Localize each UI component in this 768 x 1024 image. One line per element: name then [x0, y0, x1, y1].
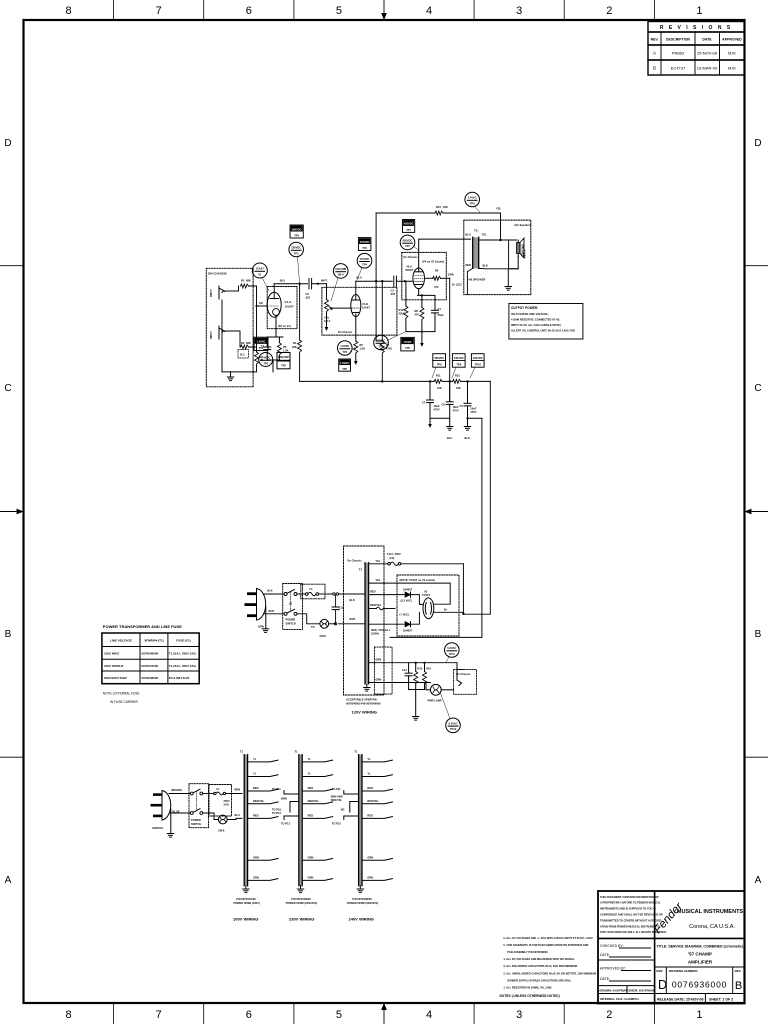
zone tick 8/7 bottom [113, 1003, 115, 1024]
svg-text:C2: C2 [306, 292, 310, 296]
hum balance resistor R14 [415, 663, 417, 672]
center arrow top [382, 0, 386, 19]
plug ground wire 100V [170, 809, 172, 833]
svg-text:A PROPRIETARY NATURE TO FENDER: A PROPRIETARY NATURE TO FENDER MUSICAL [600, 901, 661, 905]
svg-text:APPROVED: APPROVED [722, 38, 742, 42]
zone tick 3/2 bottom [563, 1003, 565, 1024]
svg-text:ENGR: KAUFMAN: ENGR: KAUFMAN [629, 989, 655, 993]
svg-text:0076936000: 0076936000 [672, 980, 727, 990]
svg-text:B+ (SC): B+ (SC) [452, 283, 462, 287]
balloon TP7 [400, 235, 415, 250]
svg-text:(POWER SUPPLY BYPASS CAPACITOR: (POWER SUPPLY BYPASS CAPACITORS ARE 20%)… [507, 979, 571, 983]
svg-text:25-NOV-08: 25-NOV-08 [697, 51, 718, 56]
svg-text:T2: T2 [474, 229, 478, 233]
svg-text:On Chassis: On Chassis [403, 255, 418, 259]
svg-text:RED/YEL: RED/YEL [308, 799, 320, 803]
svg-text:120V 60HZ: 120V 60HZ [104, 652, 119, 656]
svg-text:DRAWING NUMBER: DRAWING NUMBER [669, 969, 698, 973]
fuse dashed box 100V [209, 785, 232, 817]
svg-text:RED/YEL: RED/YEL [370, 603, 382, 607]
svg-text:C5: C5 [460, 404, 464, 408]
zone tick 3/2 top [563, 0, 565, 20]
svg-text:OUTPUT POWER:: OUTPUT POWER: [511, 306, 538, 310]
svg-text:Corona, CA U.S.A.: Corona, CA U.S.A. [689, 924, 735, 930]
speaker LS1 [517, 243, 521, 254]
filter cap C7 branch [429, 381, 431, 399]
fuse F1 [297, 593, 306, 595]
svg-text:7: 7 [156, 5, 162, 17]
revisions table frame [648, 22, 745, 33]
svg-text:1: 1 [696, 1009, 702, 1021]
pilot lamp XP1 [430, 684, 441, 695]
svg-text:R6: R6 [360, 343, 364, 347]
svg-text:1N4007: 1N4007 [403, 588, 413, 592]
svg-text:YL: YL [253, 772, 257, 776]
svg-text:MUSICAL INSTRUMENTS: MUSICAL INSTRUMENTS [677, 909, 744, 915]
svg-text:3AG: 3AG [224, 803, 229, 807]
balloon 12AX7 callout [252, 263, 267, 278]
volume pot VR1 1M [325, 300, 329, 312]
svg-text:FUSE (F1): FUSE (F1) [176, 639, 190, 643]
hum balance resistor R15 [424, 663, 426, 672]
svg-text:TP4: TP4 [362, 246, 367, 250]
svg-text:10K: 10K [437, 386, 442, 390]
svg-text:NC: NC [341, 808, 345, 812]
screen wire and resistor R9 [424, 277, 433, 279]
N.C. dashed box [238, 350, 249, 359]
screen supply vertical [449, 278, 451, 401]
T2 primary bottom lead down [467, 268, 472, 294]
svg-text:DRAWN: KAUFMAN: DRAWN: KAUFMAN [600, 989, 628, 993]
zone tick D/C right [745, 265, 768, 267]
svg-text:LINE VOLTAGE: LINE VOLTAGE [110, 639, 132, 643]
label box TP5 black [339, 359, 351, 371]
svg-text:NOTE: EXTERNAL FUSE: NOTE: EXTERNAL FUSE [103, 692, 140, 696]
resistor R1 68K [241, 284, 249, 288]
resistor R3 1M grid leak [256, 347, 258, 352]
svg-text:ACCEPTABLE XFMR P/N: ACCEPTABLE XFMR P/N [346, 698, 377, 702]
svg-text:100V WIRING: 100V WIRING [233, 917, 258, 922]
power switch dashed box [283, 584, 303, 630]
svg-text:DATE:: DATE: [600, 977, 610, 981]
cap C4 cathode bypass [432, 310, 439, 313]
grid leak vertical R7 path [376, 281, 382, 341]
V2 plate wire to OT [419, 239, 471, 272]
T1 tap RED bottom [369, 623, 404, 625]
svg-text:BRN AND: BRN AND [331, 795, 343, 799]
resistor R8 cathode 470 [420, 307, 424, 319]
speaker ground [505, 287, 511, 291]
pentode V2 6V6GT [413, 268, 425, 289]
svg-text:B+: B+ [444, 608, 448, 612]
svg-text:TP7: TP7 [406, 228, 411, 232]
svg-text:GRN: GRN [253, 855, 259, 859]
svg-text:TO P11: TO P11 [332, 787, 341, 791]
balloon volume callout [333, 264, 348, 279]
svg-text:360VDC: 360VDC [434, 356, 444, 360]
svg-text:475V: 475V [434, 408, 440, 412]
svg-text:0076048000: 0076048000 [142, 676, 159, 680]
svg-text:12AX7: 12AX7 [256, 267, 264, 271]
svg-text:6.3VAC: 6.3VAC [449, 721, 458, 725]
input jack J2 [219, 326, 225, 339]
connector terminals hot [333, 593, 335, 595]
fuse F1 100V [203, 793, 214, 795]
resistor R7 [380, 341, 384, 353]
svg-text:(On Speaker): (On Speaker) [515, 223, 531, 227]
svg-text:R9: R9 [435, 269, 439, 273]
svg-text:1.5K: 1.5K [283, 349, 289, 353]
xfmr C jumpers [344, 791, 359, 820]
svg-text:R12: R12 [455, 374, 460, 378]
node down to supply vertical [299, 284, 301, 340]
switch S1 pole 2 [284, 612, 287, 615]
svg-text:B: B [653, 66, 656, 71]
zone tick D/C left [0, 265, 24, 267]
svg-text:8: 8 [66, 1009, 72, 1021]
svg-text:C14: C14 [402, 668, 407, 672]
B+ bus horizontal [300, 380, 491, 382]
title block frame [598, 891, 745, 1004]
svg-text:4. ALL DC VOLTAGES ARE MEASURE: 4. ALL DC VOLTAGES ARE MEASURED WITH NO … [503, 957, 575, 961]
svg-text:T1.25A L 250V 3AG: T1.25A L 250V 3AG [169, 652, 197, 656]
AC plug P1 100V [162, 791, 171, 821]
top rail corner to speaker line [500, 213, 502, 240]
svg-text:N.C.: N.C. [240, 353, 245, 357]
label box TP4 black [358, 238, 371, 251]
left center arrow [0, 509, 23, 513]
svg-text:C13: C13 [339, 606, 344, 610]
svg-text:1.4VDC: 1.4VDC [256, 340, 265, 344]
zone tick B/A right [745, 756, 768, 758]
svg-text:On Chassis: On Chassis [347, 559, 362, 563]
T1 tap RED [369, 594, 404, 596]
svg-text:RED: RED [253, 786, 259, 790]
svg-text:TP7: TP7 [405, 244, 410, 248]
svg-text:SHEET: 1 OF 2: SHEET: 1 OF 2 [709, 998, 733, 1002]
svg-text:R15: R15 [426, 667, 431, 671]
input jack J1 [219, 286, 225, 299]
svg-text:17VDC: 17VDC [377, 339, 385, 343]
svg-text:RED: RED [367, 786, 373, 790]
svg-text:5: 5 [336, 1009, 342, 1021]
svg-text:BROWN: BROWN [172, 788, 182, 792]
svg-text:420VDC: 420VDC [404, 222, 414, 226]
svg-text:4 OHM RESISTIVE, CONNECTED AT: 4 OHM RESISTIVE, CONNECTED AT 4Ω [511, 318, 559, 322]
svg-text:TP6: TP6 [405, 346, 410, 350]
zone tick 6/5 top [293, 0, 295, 20]
diode D2 [405, 622, 411, 627]
wire R1 to grid node [249, 285, 257, 287]
T1 HV secondary YEL 2 [369, 583, 451, 604]
svg-text:1N4007: 1N4007 [403, 629, 413, 633]
svg-text:WHT: WHT [349, 617, 355, 621]
svg-text:TO P11: TO P11 [272, 787, 281, 791]
svg-text:INPUT: INPUT [209, 331, 213, 339]
balloon TP4 [357, 253, 372, 268]
svg-text:22K: 22K [443, 205, 448, 209]
svg-text:RED: RED [308, 813, 314, 817]
hot neutral wires 100V [169, 793, 190, 795]
svg-text:C6: C6 [442, 403, 446, 407]
diode wires to tube [411, 595, 424, 625]
svg-text:1.4VDC: 1.4VDC [261, 356, 270, 360]
svg-text:0076047000: 0076047000 [142, 664, 159, 668]
svg-text:INSTRUMENTS AND IS SUPPLIED TO: INSTRUMENTS AND IS SUPPLIED TO YOU IN [600, 907, 656, 911]
svg-text:0076046000 P/N 0076049000: 0076046000 P/N 0076049000 [346, 702, 381, 706]
svg-text:6. ALL AC VOLTAGES ARE +/- 20%: 6. ALL AC VOLTAGES ARE +/- 20% WITH 120V… [503, 936, 593, 940]
xfmr A taps right [248, 760, 278, 880]
zone tick 4/3 top [473, 0, 475, 20]
svg-text:EC4737: EC4737 [671, 66, 686, 71]
svg-text:T1: T1 [295, 750, 299, 754]
svg-text:RELEASE DATE: 25-NOV-08: RELEASE DATE: 25-NOV-08 [657, 998, 703, 1002]
svg-text:PA 0.5M4 5x20: PA 0.5M4 5x20 [169, 676, 190, 680]
svg-text:S1: S1 [289, 602, 293, 606]
svg-text:CM-8: CM-8 [320, 634, 327, 638]
svg-text:(F2): (F2) [390, 556, 395, 560]
switch S1 100V [190, 792, 193, 795]
svg-text:BLU: BLU [280, 279, 285, 283]
svg-text:SWITCH: SWITCH [191, 822, 201, 826]
svg-text:5Y3GT: 5Y3GT [422, 593, 431, 597]
svg-text:1M: 1M [259, 301, 263, 305]
svg-text:1M-A: 1M-A [338, 273, 344, 277]
tp label box TP10 [471, 354, 484, 368]
svg-text:.022: .022 [305, 296, 311, 300]
svg-text:8: 8 [66, 5, 72, 17]
svg-text:345VDC: 345VDC [454, 356, 464, 360]
svg-text:6: 6 [246, 5, 252, 17]
svg-text:BLU: BLU [466, 233, 471, 237]
svg-text:(P# on V2 Socket): (P# on V2 Socket) [422, 260, 444, 264]
svg-text:RED/YEL: RED/YEL [331, 798, 343, 802]
triode V1-B [351, 295, 361, 317]
svg-text:R2: R2 [241, 341, 245, 345]
svg-text:YL: YL [367, 772, 371, 776]
line cap C13 [335, 595, 337, 607]
svg-text:BLU: BLU [235, 813, 240, 817]
svg-text:470: 470 [434, 285, 439, 289]
zone tick 6/5 bottom [293, 1003, 295, 1024]
thermistor CM-8 100V [203, 813, 219, 820]
svg-text:TP5: TP5 [342, 367, 347, 371]
resistor R10 grid 220K [404, 306, 408, 318]
svg-text:P/N 0076047000: P/N 0076047000 [236, 897, 256, 901]
wire jack1 to R1 [225, 290, 239, 292]
svg-text:DESCRIPTION: DESCRIPTION [666, 38, 690, 42]
svg-text:REV.: REV. [735, 969, 742, 973]
wire jack2 to R2 [225, 331, 241, 347]
svg-text:RED: RED [370, 590, 376, 594]
right center arrow [746, 509, 768, 513]
node grid join [256, 286, 258, 347]
svg-text:RED: RED [466, 263, 472, 267]
svg-text:4.4VAC: 4.4VAC [468, 196, 477, 200]
V1B plate wire [355, 281, 357, 300]
svg-text:On Chassis: On Chassis [338, 330, 353, 334]
svg-text:INPUT: INPUT [209, 289, 213, 297]
xfmr A ground [245, 886, 247, 889]
svg-text:5. THIS SCHEMATIC IS FOR PCB F: 5. THIS SCHEMATIC IS FOR PCB FABRICATION… [503, 943, 588, 947]
svg-text:CONFIDENCE AND SHALL NOT BE RE: CONFIDENCE AND SHALL NOT BE REVEALED OR [600, 913, 663, 917]
svg-text:R14: R14 [418, 667, 423, 671]
svg-text:WHT: WHT [268, 609, 274, 613]
balloon TP9 top [465, 192, 480, 207]
svg-text:YEL: YEL [375, 559, 380, 563]
svg-text:VOLUME: VOLUME [335, 267, 346, 271]
xfmr A winding [244, 755, 247, 886]
svg-text:V1-B: V1-B [362, 302, 368, 306]
svg-text:REV.: REV. [651, 38, 659, 42]
svg-text:4: 4 [426, 1009, 432, 1021]
svg-text:C: C [4, 383, 11, 394]
svg-text:NOTES: (UNLESS OTHERWISE NOTE: NOTES: (UNLESS OTHERWISE NOTED) [500, 994, 560, 998]
svg-text:100V 50/60HZ: 100V 50/60HZ [104, 664, 124, 668]
svg-text:INTERNAL FILE: CHAMP04: INTERNAL FILE: CHAMP04 [600, 997, 639, 1001]
svg-text:GRN: GRN [367, 875, 373, 879]
pot bottom ground [326, 312, 328, 327]
svg-text:POWER XFMR (100V): POWER XFMR (100V) [233, 901, 260, 905]
power switch dashed box 100V [189, 784, 209, 828]
filter cap C5 branch [467, 381, 469, 402]
input ground bus wire [222, 300, 257, 372]
T1 center tap RED/YEL [369, 608, 377, 610]
svg-text:XFMR/P# (T1): XFMR/P# (T1) [144, 639, 163, 643]
svg-text:POWER TRANSFORMER AND LINE: POWER TRANSFORMER AND LINE FUSE [103, 624, 182, 629]
svg-text:240V WIRING: 240V WIRING [349, 917, 374, 922]
filter cap C6 branch [449, 381, 451, 401]
AC plug P1 [257, 589, 266, 621]
svg-text:120V WIRING: 120V WIRING [352, 710, 377, 715]
svg-text:(230V): (230V) [371, 632, 379, 636]
svg-text:RED: RED [308, 786, 314, 790]
svg-text:BLK: BLK [483, 263, 488, 267]
svg-text:On Chassis: On Chassis [456, 672, 471, 676]
svg-text:220K: 220K [399, 312, 405, 316]
plug ground wire [265, 607, 267, 628]
output power note box [509, 304, 583, 340]
svg-text:22K: 22K [292, 345, 297, 349]
svg-text:1.5K: 1.5K [360, 347, 366, 351]
long wire to PS right [390, 418, 482, 637]
T1 HV secondary YEL with fuse F2 [369, 563, 388, 565]
svg-text:TP11: TP11 [449, 652, 456, 656]
svg-text:V2-A: V2-A [406, 265, 412, 269]
zone tick 4/3 bottom [473, 1003, 475, 1024]
balloon TP3 [289, 242, 304, 257]
plate rail V1A [274, 283, 307, 285]
svg-text:16uF: 16uF [434, 404, 440, 408]
T1 heater tap GRN 2 [369, 682, 431, 684]
T1 heater tap GRN 1 [369, 662, 457, 664]
neutral wire to thermistor [297, 614, 320, 624]
svg-text:170VDC: 170VDC [360, 257, 370, 261]
svg-text:APPROVED BY:: APPROVED BY: [600, 967, 626, 971]
svg-text:CHECKED BY:: CHECKED BY: [600, 944, 624, 948]
svg-text:C3: C3 [391, 289, 395, 293]
svg-text:RED: RED [367, 813, 373, 817]
svg-text:TP2: TP2 [263, 361, 268, 365]
svg-text:Fender: Fender [652, 900, 686, 936]
svg-text:(+ VAC): (+ VAC) [400, 613, 409, 617]
svg-text:A: A [653, 51, 656, 56]
svg-text:PWR LAMP: PWR LAMP [428, 699, 442, 703]
svg-text:16uF: 16uF [453, 405, 459, 409]
svg-text:GRN: GRN [375, 678, 381, 682]
svg-text:180VDC: 180VDC [291, 246, 301, 250]
T2 secondary bottom lead [479, 240, 519, 286]
svg-text:TP2: TP2 [259, 346, 264, 350]
HV loop to rectifier plate [462, 564, 464, 614]
svg-text:RED, T200mA L: RED, T200mA L [371, 628, 391, 632]
wire into volume pot [326, 284, 328, 300]
svg-text:RED: RED [253, 813, 259, 817]
svg-text:R5: R5 [283, 345, 287, 349]
svg-text:A: A [5, 875, 12, 886]
label box TP3 black upper [290, 225, 303, 238]
svg-text:YEL: YEL [375, 578, 380, 582]
svg-text:230V WIRING: 230V WIRING [289, 917, 314, 922]
ground input [230, 372, 232, 377]
svg-text:POWER: POWER [286, 618, 296, 622]
svg-text:180VDC: 180VDC [292, 227, 302, 231]
series resistor R11 on bus [434, 379, 442, 383]
svg-text:C7: C7 [422, 401, 426, 405]
svg-text:6V6GT: 6V6GT [405, 268, 414, 272]
svg-text:BLK: BLK [349, 598, 354, 602]
svg-text:THIS DOCUMENT CONTAINS INFORMA: THIS DOCUMENT CONTAINS INFORMATION OF [600, 895, 659, 899]
svg-text:BRN: BRN [235, 788, 241, 792]
cathode cap C1 25uF [264, 347, 271, 350]
xfmr B jumpers [284, 791, 299, 820]
svg-text:R13: R13 [436, 205, 441, 209]
tp label box TP8 [433, 354, 446, 368]
cathode bottom joins [406, 313, 435, 332]
svg-text:475V: 475V [453, 409, 459, 413]
svg-text:C: C [754, 383, 761, 394]
V2 chassis dashed box [402, 252, 447, 299]
plate rail V1B to V2 grid [356, 280, 392, 282]
svg-text:GRN/YEL: GRN/YEL [152, 826, 164, 830]
balloon TP2 [259, 353, 273, 367]
svg-text:3. ALL POLARIZED CAPACITORS IN: 3. ALL POLARIZED CAPACITORS IN uF, 20% N… [503, 964, 578, 968]
svg-text:(5.3 VAC): (5.3 VAC) [401, 599, 412, 603]
svg-text:TRANSMITTED TO OTHERS WITHOUT: TRANSMITTED TO OTHERS WITHOUT AUTHORIZ- [600, 918, 662, 922]
svg-text:3: 3 [516, 5, 522, 17]
svg-text:68K: 68K [246, 341, 251, 345]
svg-text:TP3: TP3 [294, 251, 299, 255]
svg-text:325VDC: 325VDC [473, 356, 483, 360]
V1A plate wire [273, 284, 275, 299]
svg-text:GRN: GRN [253, 875, 259, 879]
svg-text:TP4: TP4 [362, 263, 367, 267]
triode V1-A [267, 292, 281, 317]
top B+ rail [376, 212, 500, 214]
label box TP2 black [254, 337, 268, 350]
svg-text:POWER XFMR (230/240V): POWER XFMR (230/240V) [347, 901, 379, 905]
center arrow bottom [382, 1004, 386, 1024]
svg-text:R8: R8 [415, 309, 419, 313]
svg-text:TP12: TP12 [450, 727, 457, 731]
svg-text:PCB ASSEMBLY P/N 0076039000: PCB ASSEMBLY P/N 0076039000 [507, 950, 548, 954]
V1A pcb dashed box [267, 287, 297, 329]
svg-text:B: B [755, 629, 762, 640]
svg-text:BRN: BRN [281, 797, 287, 801]
xfmr B winding 230V [299, 755, 302, 886]
rectifier dashed box [397, 575, 459, 636]
zone tick 7/6 bottom [203, 1003, 205, 1024]
